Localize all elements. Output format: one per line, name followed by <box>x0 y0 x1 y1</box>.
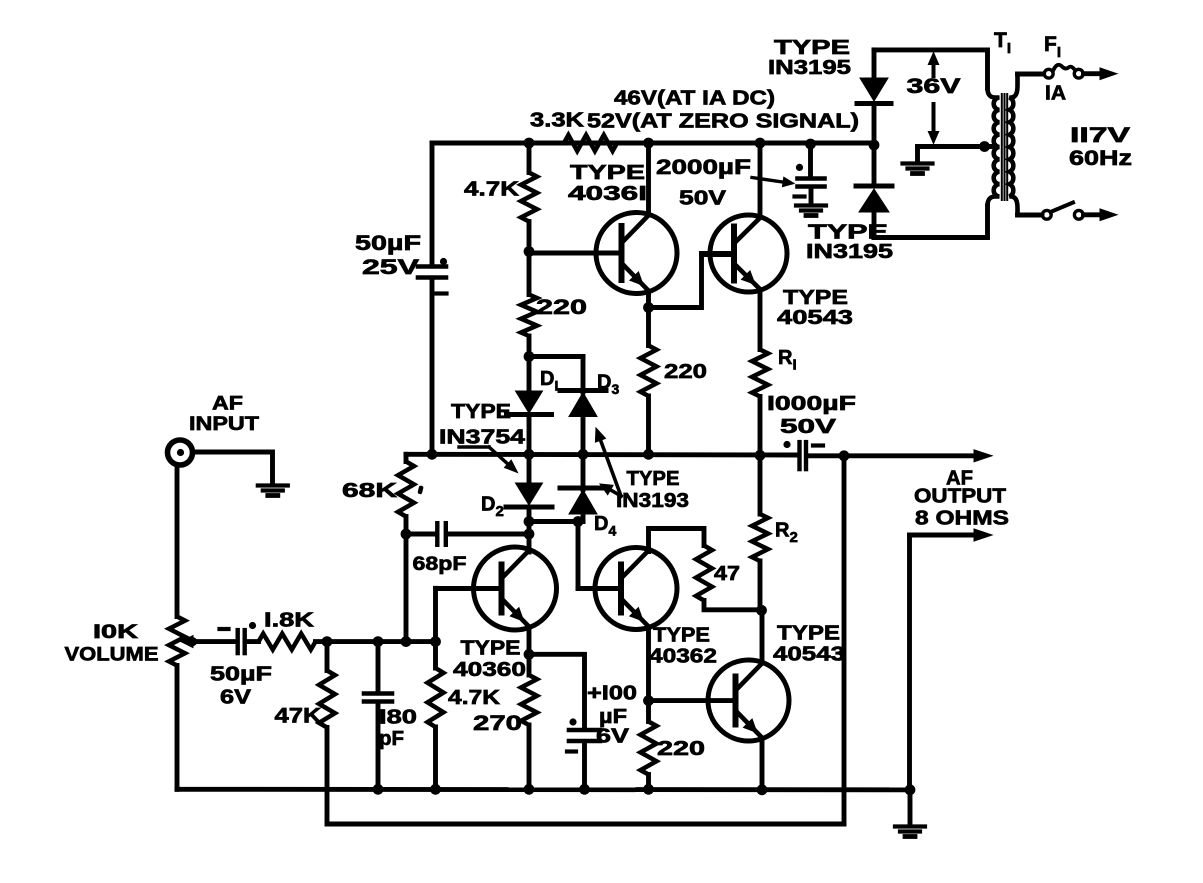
label 50uF 6V <box>210 663 272 708</box>
svg-text:I80: I80 <box>379 706 417 728</box>
capacitor 50uF 6V <box>220 622 257 653</box>
label TYPE 40360 <box>453 637 526 681</box>
wire feedback rail <box>327 822 844 827</box>
svg-text:52V(AT ZERO SIGNAL): 52V(AT ZERO SIGNAL) <box>587 110 859 132</box>
svg-text:50µF: 50µF <box>210 663 272 685</box>
node 4.7K lower at ground rail <box>430 784 441 795</box>
node 220 bottom at ground rail <box>643 784 654 795</box>
node 4.7K top <box>524 138 535 149</box>
capacitor 2000uF 50V <box>795 144 825 204</box>
svg-text:IN3195: IN3195 <box>806 241 893 263</box>
wire ground rail bottom <box>177 787 910 792</box>
wire wiper to 50uF <box>193 639 237 644</box>
label TYPE 1N3754 <box>439 401 526 449</box>
node Q2 collector on rail <box>755 138 766 149</box>
ground at input <box>258 483 288 487</box>
resistor 220 upper <box>521 252 537 357</box>
svg-text:2000µF: 2000µF <box>656 156 751 179</box>
resistor 3.3K <box>564 135 617 151</box>
node Q1 base divider <box>524 246 535 257</box>
node 68K bottom / 68pF <box>401 529 412 540</box>
node 2000uF on rail <box>805 139 816 150</box>
svg-text:I000µF: I000µF <box>767 393 856 415</box>
svg-text:25V: 25V <box>362 256 419 279</box>
wire emitter branch to 100uF <box>529 654 585 727</box>
wire Q4 base <box>649 698 736 703</box>
svg-text:270: 270 <box>473 712 522 735</box>
fuse F1 <box>1044 65 1083 78</box>
ground at 2000uF <box>796 203 826 207</box>
label AF INPUT <box>189 394 259 436</box>
svg-text:46V(AT IA DC): 46V(AT IA DC) <box>614 87 775 109</box>
wire 1.8K to base riser <box>316 639 436 644</box>
node 270 at ground rail <box>524 784 535 795</box>
svg-text:8 OHMS: 8 OHMS <box>915 507 1009 529</box>
resistor 68K <box>398 454 414 534</box>
node 100uF at ground rail <box>579 784 590 795</box>
wire output node down to feedback rail <box>842 456 847 824</box>
label 50uF 25V <box>355 232 421 279</box>
node 220 middle at output rail <box>643 449 654 460</box>
wire input jack to ground <box>194 452 273 483</box>
resistor R1 <box>752 290 768 455</box>
node 68K riser at volume wire <box>401 636 412 647</box>
wire rectifier bottom <box>874 206 988 238</box>
wire Q1 emitter to Q2 base <box>649 255 735 308</box>
svg-text:220: 220 <box>657 738 705 760</box>
svg-text:TYPE: TYPE <box>451 401 511 423</box>
node R2 / 47 ohm / Q4 collector <box>756 605 767 616</box>
wire 40360 base riser <box>433 588 438 641</box>
label 180pF <box>379 706 417 750</box>
svg-text:40543: 40543 <box>777 307 853 329</box>
resistor 47K <box>319 642 335 824</box>
diode D3 TYPE 1N3193 <box>560 391 606 455</box>
svg-text:OUTPUT: OUTPUT <box>914 485 1006 507</box>
label TYPE 40543 lower <box>773 622 845 665</box>
wire ground stub <box>908 789 913 825</box>
leader arrow to 2000uF <box>752 177 794 187</box>
resistor 47 <box>696 546 762 610</box>
node center tap <box>979 141 990 152</box>
svg-text:60Hz: 60Hz <box>1069 147 1132 170</box>
transistor Q1 TYPE 40361 <box>529 143 677 308</box>
wire 50uF column upper <box>430 143 435 264</box>
node D1-D2 at output rail <box>524 449 535 460</box>
transformer T1 <box>988 74 1018 215</box>
svg-text:40360: 40360 <box>453 659 526 681</box>
diode D1 TYPE 1N3754 <box>507 357 552 455</box>
transistor TYPE 40360 <box>436 547 557 654</box>
wire rectifier top <box>874 50 988 88</box>
tick mark next to 68K <box>417 485 423 494</box>
label TYPE 1N3195 upper <box>768 37 851 79</box>
wire primary top to fuse <box>1018 72 1044 77</box>
arrow 36V up <box>928 53 938 77</box>
leader arrows to D3 and D4 <box>595 428 621 496</box>
svg-text:TYPE: TYPE <box>783 287 848 309</box>
node volume wiper <box>188 637 197 646</box>
AF input jack <box>168 440 193 465</box>
node 50uF column at output rail <box>427 449 438 460</box>
node D4 bottom / Q3 base riser <box>573 516 584 527</box>
resistor 220 bottom <box>641 701 657 790</box>
svg-text:47: 47 <box>714 563 740 585</box>
svg-text:4036I: 4036I <box>568 183 647 205</box>
AF output arrow bottom <box>974 529 992 541</box>
wire fuse to line arrow <box>1084 71 1102 76</box>
wire center tap <box>918 144 995 149</box>
resistor 4.7K upper <box>521 143 537 252</box>
leader arrow to D2 <box>459 447 518 473</box>
wire primary bottom to switch <box>1018 213 1043 218</box>
ground symbol bottom right <box>895 824 925 828</box>
label TYPE 1N3193 <box>616 468 689 512</box>
svg-text:IN3195: IN3195 <box>768 57 851 79</box>
label 10K VOLUME <box>65 622 159 666</box>
wire B+ top rail <box>432 141 874 146</box>
AF output arrow top <box>974 450 992 462</box>
label 1000uF 50V <box>767 393 856 438</box>
capacitor 100uF 6V <box>567 718 600 789</box>
wire center tap ground stub <box>915 147 920 162</box>
svg-text:68pF: 68pF <box>413 554 467 575</box>
svg-text:6V: 6V <box>220 686 252 708</box>
diode D4 TYPE 1N3193 <box>560 454 606 521</box>
svg-text:40543: 40543 <box>773 643 845 665</box>
resistor 4.7K lower <box>428 642 444 790</box>
capacitor C 50uF 25V <box>418 258 447 294</box>
wire Q3 base riser <box>578 522 621 589</box>
svg-text:50µF: 50µF <box>355 232 421 255</box>
svg-text:40362: 40362 <box>649 645 717 667</box>
svg-text:6V: 6V <box>596 725 630 747</box>
node ground junction <box>905 784 916 795</box>
svg-text:220: 220 <box>536 296 587 319</box>
node R1 bottom at output rail <box>755 450 766 461</box>
label TYPE 40543 upper <box>777 287 853 329</box>
node 68pF right at collector column <box>524 529 535 540</box>
AC line arrow bottom <box>1100 209 1117 221</box>
svg-text:+I00: +I00 <box>587 682 637 704</box>
arrow 36V down <box>928 104 938 144</box>
diode D2 TYPE 1N3754 <box>506 454 552 521</box>
label 2000uF 50V <box>656 156 751 209</box>
svg-text:TYPE: TYPE <box>777 622 840 644</box>
node 180pF at ground rail <box>373 784 384 795</box>
wire 68K lower riser <box>404 534 409 642</box>
svg-text:TYPE: TYPE <box>627 468 680 490</box>
wire 50uF to 1.8K <box>247 639 259 644</box>
wire output rail (mid) <box>406 452 798 458</box>
wire output rail right segment <box>809 453 975 458</box>
diode CR2 TYPE 1N3195 lower <box>856 145 892 238</box>
node D3-D4 at output rail <box>578 449 589 460</box>
wire 40360 collector column <box>527 522 532 553</box>
node D1 top junction <box>524 351 535 362</box>
svg-text:I.8K: I.8K <box>264 609 315 631</box>
label +100uF 6V <box>587 682 637 747</box>
diode CR1 TYPE 1N3195 upper <box>857 50 891 145</box>
svg-text:INPUT: INPUT <box>189 414 259 435</box>
resistor 1.8K <box>259 634 316 650</box>
capacitor 1000uF 50V <box>783 441 823 469</box>
capacitor 68pF <box>406 523 529 545</box>
svg-text:I0K: I0K <box>93 622 138 643</box>
node base riser at volume wire <box>430 636 441 647</box>
node D2 bottom <box>524 516 535 527</box>
svg-text:IA: IA <box>1045 82 1066 104</box>
wire D2-D4 bottom jumper <box>529 519 583 524</box>
svg-text:TYPE: TYPE <box>570 162 645 184</box>
node Q1 collector / 3.3K right <box>643 138 654 149</box>
label TYPE 40361 <box>568 162 647 205</box>
wire AF output return <box>910 535 976 789</box>
svg-text:50V: 50V <box>780 416 837 438</box>
node Q3 emitter / Q4 base <box>643 695 654 706</box>
svg-text:IN3754: IN3754 <box>439 426 526 448</box>
svg-text:TYPE: TYPE <box>653 624 710 646</box>
label TYPE 40362 <box>649 624 717 667</box>
transistor Q4 TYPE 40543 lower <box>708 610 789 789</box>
svg-text:4.7K: 4.7K <box>464 178 520 200</box>
label AF OUTPUT 8 OHMS <box>914 467 1009 529</box>
svg-text:68K: 68K <box>342 480 398 502</box>
node 40360 emitter <box>524 649 535 660</box>
label TYPE 1N3195 lower <box>806 221 893 263</box>
svg-text:47K: 47K <box>275 705 322 728</box>
svg-text:pF: pF <box>379 728 404 750</box>
svg-text:3.3K: 3.3K <box>530 109 585 131</box>
node rectifier junction <box>869 140 880 151</box>
svg-text:220: 220 <box>664 361 707 383</box>
node Q1 emitter <box>643 302 654 313</box>
ground at center tap <box>903 161 933 165</box>
wire switch to line arrow <box>1084 212 1102 217</box>
wire D1 top jumper to D3 <box>529 357 583 391</box>
node 47K top <box>322 636 333 647</box>
transistor Q2 TYPE 40543 upper <box>702 143 788 292</box>
svg-text:AF: AF <box>212 394 243 415</box>
svg-text:TYPE: TYPE <box>774 37 850 59</box>
wire Q3 collector jog to 47 ohm <box>649 529 705 552</box>
svg-text:4.7K: 4.7K <box>448 687 501 709</box>
resistor R2 <box>752 455 768 610</box>
wire 50uF column lower <box>430 280 435 454</box>
wire input jack down to volume pot <box>175 466 180 617</box>
capacitor 180pF <box>364 642 392 790</box>
svg-text:IN3193: IN3193 <box>616 490 689 512</box>
node Q4 emitter at ground rail <box>757 784 768 795</box>
transistor Q3 TYPE 40362 <box>578 548 677 701</box>
svg-text:TYPE: TYPE <box>461 637 521 659</box>
potentiometer 10K VOLUME <box>169 617 194 790</box>
AC line arrow top <box>1100 68 1117 80</box>
switch S1 <box>1042 203 1083 220</box>
svg-text:36V: 36V <box>907 75 961 98</box>
resistor 220 middle <box>641 308 657 455</box>
label 117V 60Hz <box>1069 124 1132 170</box>
svg-text:50V: 50V <box>679 187 727 209</box>
svg-text:II7V: II7V <box>1070 124 1130 147</box>
svg-text:VOLUME: VOLUME <box>65 645 159 666</box>
node 180pF top <box>373 636 384 647</box>
resistor 270 <box>521 654 537 789</box>
node output / feedback <box>839 450 850 461</box>
